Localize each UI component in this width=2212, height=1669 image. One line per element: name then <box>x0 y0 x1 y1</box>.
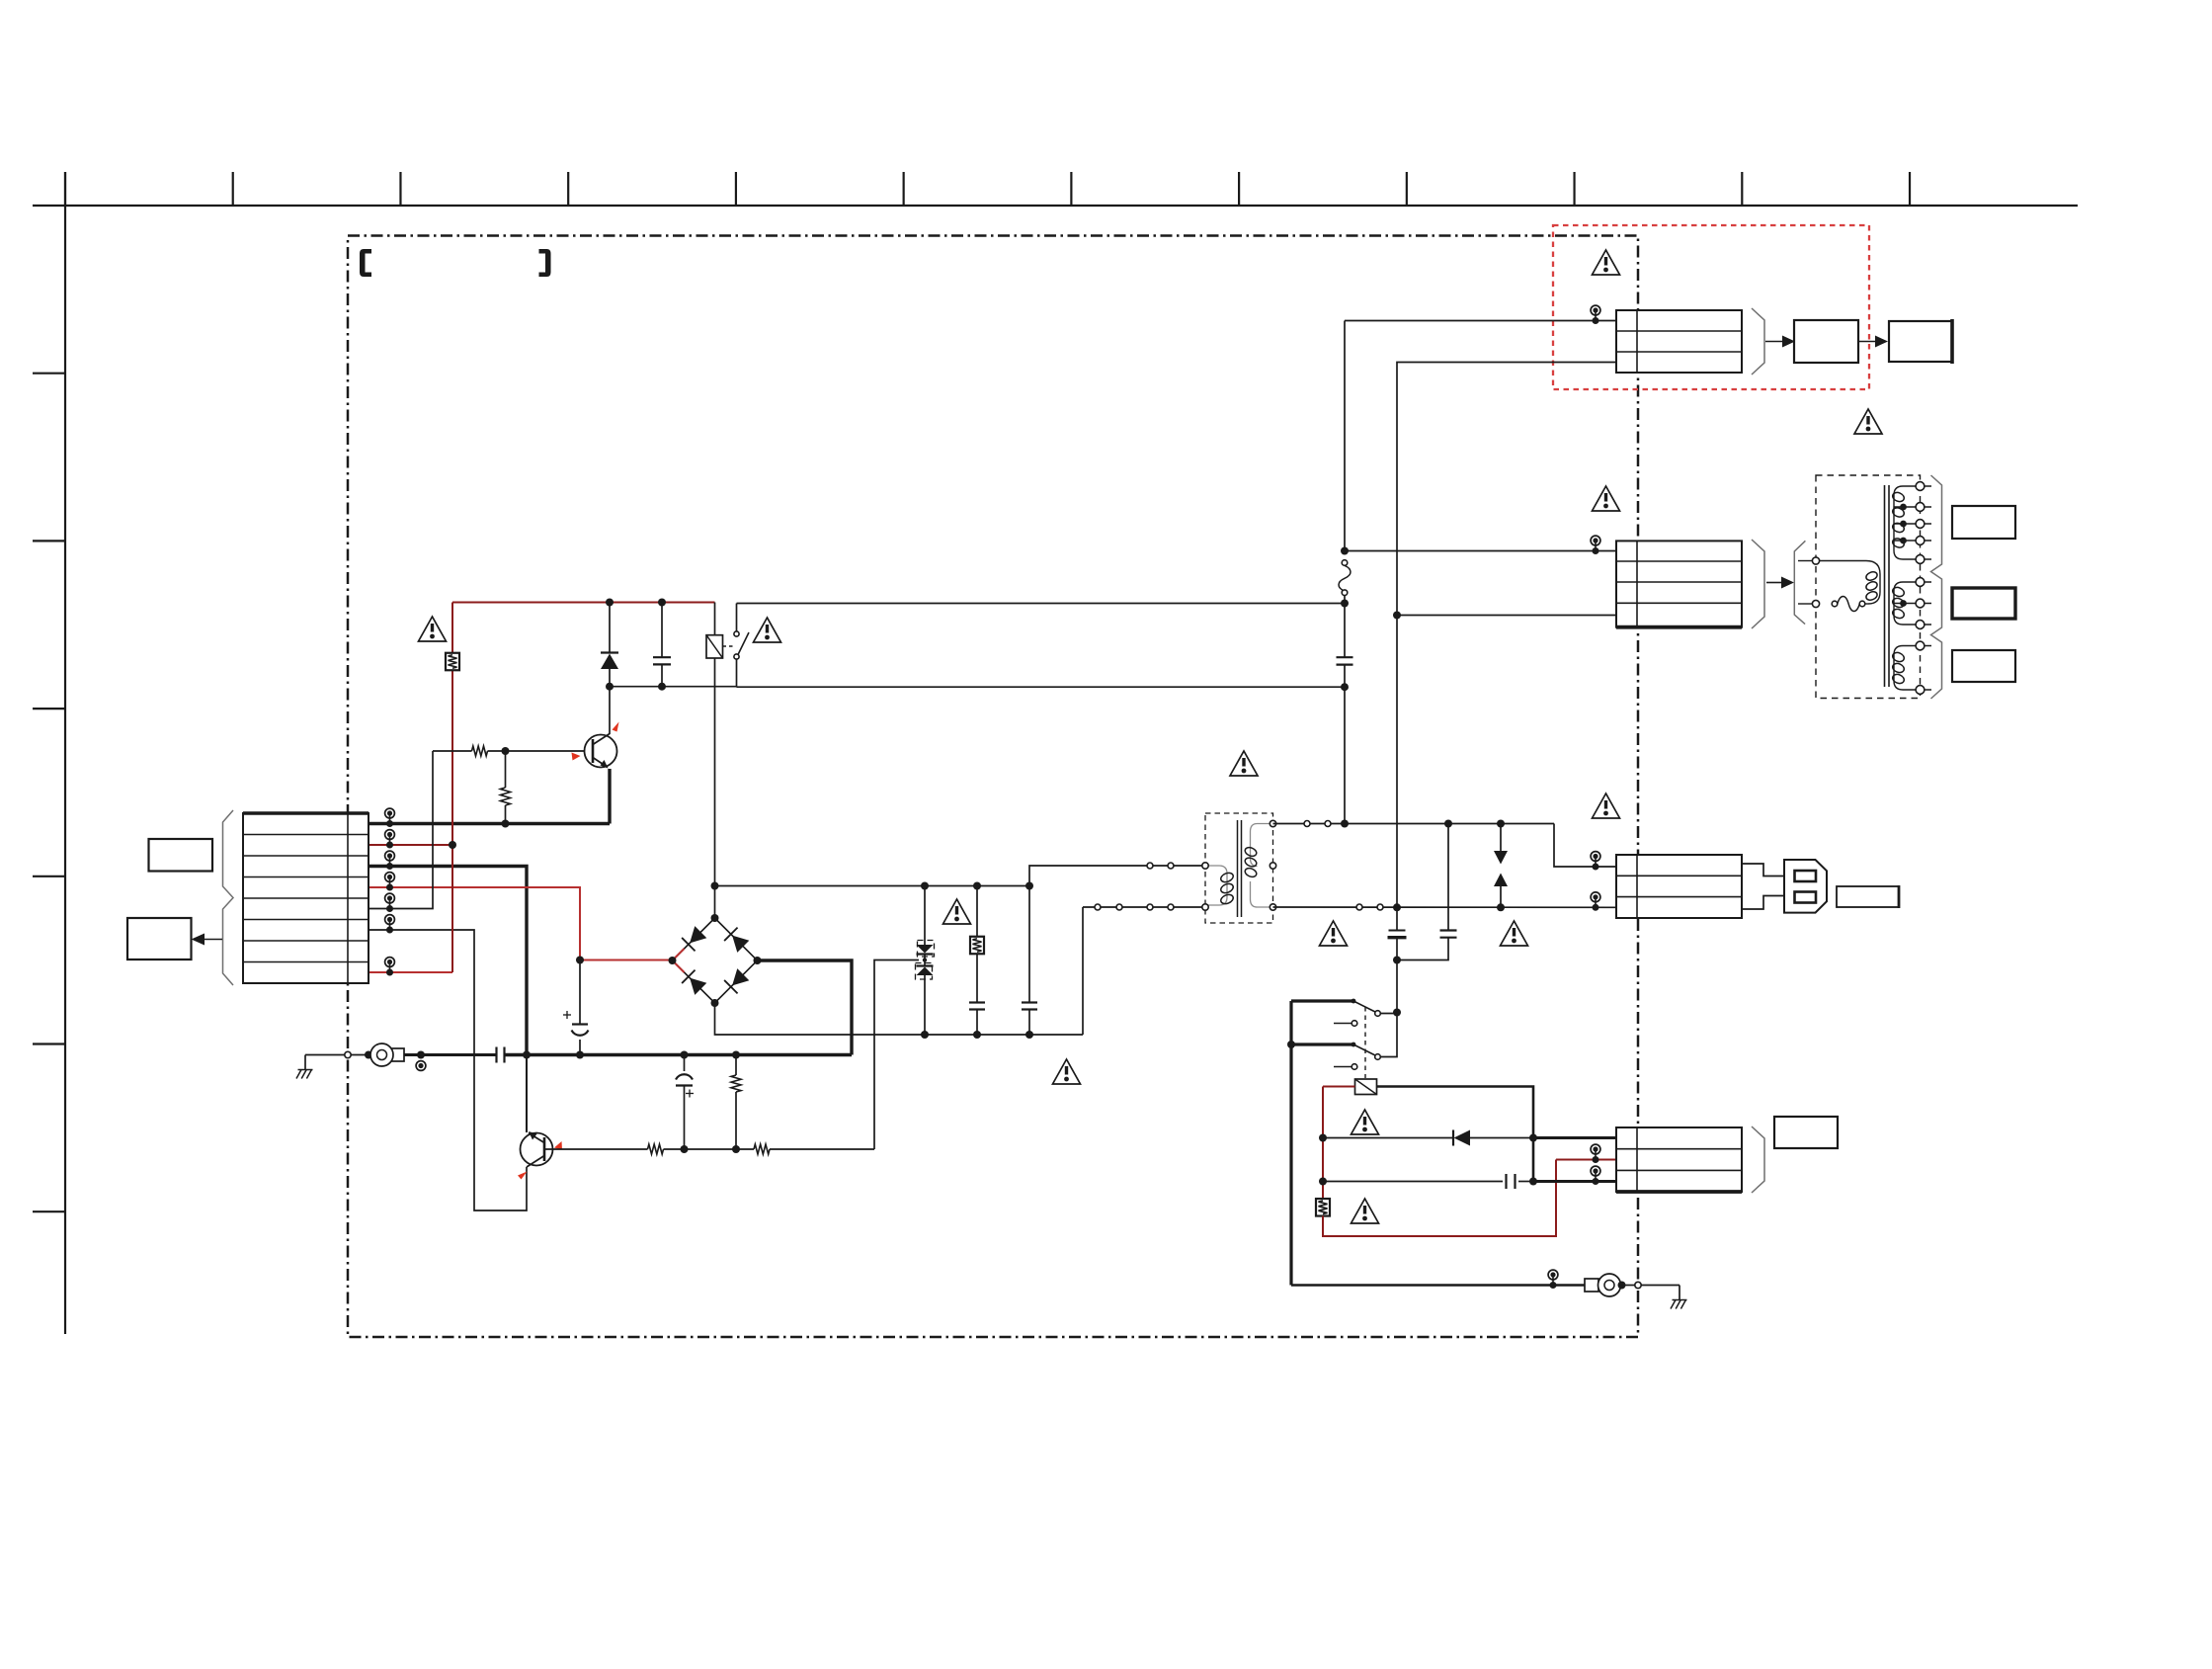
junction bus C4 <box>681 1051 689 1059</box>
pin CN1 row1 <box>1591 305 1600 315</box>
transistor Q1 emitter wire (thick) <box>608 769 611 824</box>
wire Q1 base row <box>433 750 472 752</box>
feedthrough circle on PCB edge bottom <box>1635 1282 1641 1288</box>
surge arrester SA1 <box>1500 824 1502 852</box>
warning triangle near relay RY1 <box>754 618 781 642</box>
selector S1 pole2 pivot <box>1352 1043 1356 1047</box>
pin bottom ground <box>1548 1270 1558 1280</box>
connector CN4 body <box>1616 1127 1742 1192</box>
wire CN3 to plug bottom <box>1742 896 1785 910</box>
junction D4 right <box>1529 1134 1537 1142</box>
selector S1 pole1 pivot <box>1352 999 1356 1004</box>
wire relay contact stubs <box>736 604 738 632</box>
connector CN-L left brace <box>223 810 234 985</box>
wire pole2 up to riser <box>1380 1014 1397 1057</box>
wire dark red fuse chain vertical <box>451 603 453 654</box>
transistor Q1 collector wire <box>609 687 611 734</box>
border ruler top tick marks <box>64 172 66 206</box>
wire relay loop top <box>737 603 1346 605</box>
junction base row R3 <box>732 1145 740 1153</box>
junction riser CN2 pin4 <box>1393 612 1401 620</box>
feedthrough circles T1 primary top <box>1147 863 1153 869</box>
transformer T2 secondary winding S3 <box>1894 646 1915 691</box>
junction arrester top <box>1497 820 1505 828</box>
junction north rail zener <box>921 882 929 890</box>
ground symbol left <box>304 1055 306 1070</box>
resistor R5 Q2 base <box>754 1144 770 1154</box>
wire CN-L pin8 red <box>369 971 452 973</box>
wire CN3 to plug top <box>1742 864 1785 876</box>
wire zener sense <box>874 960 919 1150</box>
junction bus pin3 <box>523 1051 531 1059</box>
zener diode pair D2 D3 <box>924 886 926 946</box>
wire pole1 to riser <box>1380 1013 1397 1015</box>
wire CN2 pin4 <box>1397 615 1616 617</box>
block box T2 out2 <box>1952 588 2015 619</box>
block box T2 out3 <box>1952 650 2015 682</box>
warning triangle under cold rail <box>1053 1059 1081 1084</box>
capacitor C9 <box>1447 824 1449 931</box>
diode D1 <box>609 603 611 653</box>
border ruler horizontal line <box>33 205 2078 207</box>
resistor R1 Q1 base <box>472 746 488 756</box>
capacitor C3 on bus <box>495 1047 497 1063</box>
arrow from CN-L brace to box B <box>204 939 222 941</box>
connector CN-L top edge thick <box>243 811 369 815</box>
wire CN-L pin1 to Q1 emitter (thick) <box>369 822 610 825</box>
connector CN3 body <box>1616 855 1742 918</box>
wire riser to T1 secondary top <box>1344 687 1346 823</box>
block box A upper-left <box>149 839 213 872</box>
connector CN4 brace <box>1752 1127 1764 1193</box>
junction north rail thermistor <box>973 882 981 890</box>
wire riser CN1 pin3 chain lower <box>1396 616 1398 909</box>
selector S1 contact row2 <box>1334 1023 1352 1025</box>
warning triangle above zeners <box>943 899 971 924</box>
wire T1 secondary top <box>1273 823 1555 825</box>
junction on red vertical row2 <box>449 841 456 849</box>
selector S1 pole2 contact <box>1375 1054 1381 1060</box>
bridge D11 diode NW <box>682 938 695 951</box>
transformer T2 secondary winding S1 <box>1894 486 1915 559</box>
wire CN4 row1 (thick) <box>1533 1136 1616 1139</box>
junction diode D1 top <box>606 599 614 607</box>
junction riser on secondary bottom <box>1393 903 1401 911</box>
transformer T1 <box>1205 813 1273 923</box>
wire CN1 pin3 <box>1397 363 1616 616</box>
junction selector riser <box>1393 1009 1401 1017</box>
connector CN1 body <box>1616 310 1742 373</box>
transformer T2 tap circles <box>1916 482 1925 491</box>
warning triangle above CN3 <box>1593 793 1620 818</box>
border ruler left tick marks <box>33 373 65 375</box>
warning triangle in red box <box>1593 250 1620 275</box>
wire CN-L pin5 to Q1 base resistor <box>369 751 433 909</box>
wire RY2 right (thick) <box>1377 1087 1534 1183</box>
block box C <box>1794 320 1858 363</box>
ring terminal E2 <box>1585 1279 1598 1292</box>
junction R2 bottom <box>502 820 510 828</box>
junction relay loop top riser <box>1341 600 1349 608</box>
block box D <box>1889 321 1952 362</box>
resistor R3 <box>735 1055 737 1076</box>
transistor Q2 <box>521 1133 553 1166</box>
wire CN4 row3 (thick) <box>1533 1180 1616 1183</box>
wire CN3 pin1 jog <box>1554 824 1616 868</box>
transformer T2 core and primary <box>1816 475 1921 699</box>
wire CN2 pin1 <box>1345 550 1616 552</box>
warning triangle below red box <box>1854 409 1882 434</box>
bridge corner junctions <box>711 914 719 922</box>
wire CN-L pin4 red to bridge <box>369 887 580 960</box>
arrow CN2 to transformer T2 <box>1766 582 1782 584</box>
junction relay loop bottom riser <box>1341 683 1349 691</box>
wire C10 to selector <box>1396 960 1398 1013</box>
capacitor C7 <box>1028 886 1030 1003</box>
wire relay coil top <box>714 603 716 635</box>
warning triangle near fuse F1 <box>419 617 447 641</box>
wire relay coil bottom to bridge north <box>714 658 716 918</box>
junction riser CN2 pin1 <box>1341 547 1349 555</box>
pin CN3 row1 <box>1591 852 1600 862</box>
block box B lower-left <box>127 918 192 960</box>
block box F <box>1774 1117 1838 1148</box>
red dashed highlight box <box>1553 225 1869 389</box>
transistor Q1 <box>585 735 617 768</box>
junction capacitor C1 top <box>658 599 666 607</box>
capacitor C6 under thermistor <box>969 1001 985 1003</box>
wire relay bottom net <box>610 686 737 688</box>
wire red bottom loop <box>1323 1160 1556 1237</box>
bridge D11 red stubs at west corner <box>673 949 685 960</box>
relay RY1 dashed link <box>723 645 736 647</box>
wire riser CN1 pin1 chain <box>1344 321 1346 551</box>
junction R1/R2 node <box>502 747 510 755</box>
wire CN-L pin3 to bus (thick) <box>369 867 527 1055</box>
warning triangle above T1 <box>1230 751 1258 776</box>
capacitor C8 <box>1344 604 1346 658</box>
relay RY2 coil <box>1355 1079 1377 1095</box>
selector S1 frame left (thick) <box>1289 1001 1292 1286</box>
ground wire left <box>305 1054 345 1056</box>
capacitor C4 electrolytic <box>684 1055 686 1072</box>
warning triangle right of arrester <box>1501 921 1528 946</box>
transistor Q1 red mark collector <box>613 722 619 732</box>
junction diode D1 bottom <box>606 683 614 691</box>
capacitor C10 <box>1396 907 1398 930</box>
wire dark red top to relay RY1 <box>452 602 715 604</box>
warning triangle above CN2 <box>1593 486 1620 511</box>
heading right bracket <box>539 249 551 277</box>
capacitor C2 electrolytic <box>579 960 581 1025</box>
warning triangle left of C10 <box>1320 921 1348 946</box>
diode D4 <box>1323 1137 1453 1139</box>
resistor R4 Q2 base <box>648 1144 664 1154</box>
selector S1 pole1 wire (thick) <box>1291 999 1353 1002</box>
wire Q2 base row <box>545 1148 648 1150</box>
wire relay loop bottom <box>737 686 1346 688</box>
feedthrough circle on PCB edge left <box>345 1051 351 1057</box>
wire bridge east to bus (thick) <box>758 960 853 1055</box>
heading left bracket <box>360 249 371 277</box>
AC bus wire (thick) <box>369 1053 496 1056</box>
pin CN4 row2 <box>1591 1144 1600 1154</box>
PCB board dash-dot outline <box>348 236 1638 1338</box>
selector S1 pole2 wire (thick) <box>1291 1043 1353 1045</box>
transistor Q2 emitter wire <box>526 1055 528 1133</box>
warning triangle near TF1 <box>1352 1199 1379 1223</box>
feedthrough circles secondary bottom <box>1356 904 1362 910</box>
junction ring terminal left <box>365 1051 372 1059</box>
junction cold rail C7 <box>1025 1031 1033 1039</box>
connector CN-L body <box>243 813 369 983</box>
connector CN-L pins <box>385 808 395 818</box>
connector CN2 brace <box>1752 540 1764 628</box>
selector S1 pole1 arm <box>1353 1001 1375 1012</box>
wire RY2 left <box>1323 1086 1355 1088</box>
junction cold rail zener <box>921 1031 929 1039</box>
junction capacitor C1 bottom <box>658 683 666 691</box>
bridge D11 diode SE <box>724 980 737 993</box>
bridge D11 diode SW <box>682 970 695 983</box>
junction bus R3 <box>732 1051 740 1059</box>
wire bottom ground run <box>1291 1284 1585 1286</box>
wire CN-L pin2 dark red to fuse node <box>369 844 452 846</box>
thermal fuse TF1 <box>1316 1199 1330 1216</box>
selector S1 pole2 arm <box>1353 1044 1375 1055</box>
junction red node C2 top <box>576 957 584 964</box>
bridge D11 diode NE <box>724 928 737 941</box>
resistor R2 Q1 base-emitter <box>505 751 507 788</box>
wire CN-L pin4 red to bridge west <box>580 960 673 961</box>
transformer T2 tap stubs <box>1915 485 1931 487</box>
feedthrough circles secondary top <box>1304 821 1310 827</box>
connector CN-L inner vertical line <box>347 813 349 983</box>
bridge rectifier D11 outline <box>673 918 758 1003</box>
warning triangle above diode row <box>1352 1110 1379 1134</box>
transistor Q2 red mark collector <box>518 1172 528 1180</box>
junction bridge north rail <box>711 882 719 890</box>
junction ring right <box>1618 1282 1626 1290</box>
wire CN4 row2 red <box>1556 1159 1616 1161</box>
fusible link FL1 <box>1342 560 1348 566</box>
junction base row C4 <box>681 1145 689 1153</box>
relay RY1 contact circles <box>734 631 739 636</box>
wire CN-L pin6 to Q2 collector <box>369 930 527 1210</box>
relay RY1 switch arm <box>738 632 749 655</box>
junction left loop diode row <box>1319 1134 1327 1142</box>
pin CN2 row1 <box>1591 536 1600 545</box>
junction selector pole2 <box>1287 1041 1295 1048</box>
connector CN-L row lines <box>243 834 369 836</box>
selector S1 pole1 contact <box>1375 1011 1381 1017</box>
wire T1 secondary bottom <box>1273 906 1617 908</box>
wire T1 primary bottom lead <box>1083 906 1205 908</box>
thermistor TH1 <box>976 886 978 938</box>
junction C10 bottom <box>1393 957 1401 964</box>
wire cold rail to T1 bottom <box>1082 907 1084 1035</box>
arrow CN1 to box C <box>1765 341 1783 343</box>
junction arrester bottom <box>1497 903 1505 911</box>
border ruler vertical line <box>64 172 66 1334</box>
connector CN1 brace <box>1752 308 1764 375</box>
junction riser on secondary top <box>1341 820 1349 828</box>
junction pin bus <box>417 1051 425 1059</box>
wire CN1 pin1 <box>1345 320 1616 322</box>
feedthrough circles T1 primary bottom <box>1095 904 1101 910</box>
wire north rail jog to T1 top <box>1029 866 1205 886</box>
capacitor C11 <box>1323 1181 1503 1183</box>
transformer T2 secondary winding S2 <box>1894 582 1915 625</box>
selector S1 gang dashed link <box>1364 1007 1366 1078</box>
wire bridge south to cold rail <box>715 1003 1084 1035</box>
wire ring to ground <box>1622 1285 1635 1287</box>
selector S1 contact row4 <box>1334 1066 1352 1068</box>
junction left loop cap row <box>1319 1178 1327 1186</box>
arrow box C to box D <box>1858 341 1876 343</box>
transformer T2 right brace <box>1931 475 1942 699</box>
wire selector left loop red <box>1322 1087 1324 1200</box>
junction north rail C7 corner <box>1025 882 1033 890</box>
wire bridge north rail <box>715 885 1030 887</box>
junction cold rail C6 <box>973 1031 981 1039</box>
transistor Q1 red mark base <box>572 753 581 761</box>
pin CN4 row3 <box>1591 1166 1600 1176</box>
capacitor C1 <box>661 603 663 658</box>
junction C11 right <box>1529 1178 1537 1186</box>
ring terminal E1 <box>391 1048 404 1061</box>
fusible resistor F1 <box>446 653 459 671</box>
connector CN2 body <box>1616 541 1742 626</box>
block box E after plug <box>1837 886 1899 907</box>
pin below bus <box>416 1061 426 1071</box>
junction bus C2 <box>576 1051 584 1059</box>
block box T2 out1 <box>1952 506 2015 539</box>
relay RY1 coil <box>706 635 723 658</box>
pin CN3 row3 <box>1591 892 1600 902</box>
AC plug P1 <box>1784 860 1827 913</box>
junction C9 top <box>1444 820 1452 828</box>
ground symbol right <box>1679 1286 1680 1300</box>
transistor Q2 red mark base <box>554 1141 562 1150</box>
